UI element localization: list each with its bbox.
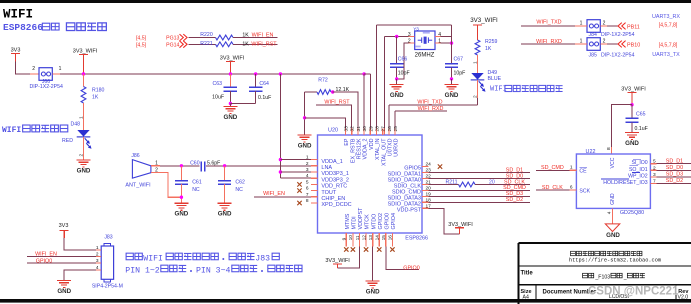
svg-text:SO_IO1: SO_IO1 — [629, 167, 648, 173]
svg-text:PB10: PB10 — [627, 42, 640, 48]
svg-text:VCC: VCC — [610, 157, 616, 168]
svg-text:ESP8266: ESP8266 — [3, 22, 43, 33]
svg-text:SCK: SCK — [579, 188, 590, 194]
svg-text:WIFI_EN: WIFI_EN — [252, 33, 274, 39]
svg-text:R220: R220 — [200, 32, 213, 38]
svg-text:J83: J83 — [255, 254, 270, 263]
svg-text:SD_CMD: SD_CMD — [541, 165, 564, 171]
svg-text:https://fire-stm32.taobao.com: https://fire-stm32.taobao.com — [569, 257, 661, 263]
svg-text:10pF: 10pF — [398, 70, 410, 76]
svg-text:VDDA_1: VDDA_1 — [321, 159, 342, 165]
svg-text:13: 13 — [368, 235, 374, 241]
svg-text:UART3_RX: UART3_RX — [652, 14, 680, 20]
svg-text:TOUT: TOUT — [321, 190, 337, 196]
svg-text:1K: 1K — [242, 33, 249, 39]
svg-text:DIP-1X2-2P54: DIP-1X2-2P54 — [601, 52, 635, 58]
svg-text:SD_D2: SD_D2 — [666, 178, 683, 184]
svg-text:5: 5 — [653, 159, 656, 165]
svg-text:VDD: VDD — [369, 138, 375, 149]
svg-text:10: 10 — [348, 235, 354, 241]
svg-text:1: 1 — [306, 155, 309, 161]
svg-text:GND: GND — [224, 114, 238, 121]
svg-text:XPD_DCDC: XPD_DCDC — [321, 202, 351, 208]
svg-text:3V3_WIFI: 3V3_WIFI — [470, 17, 498, 24]
svg-text:9: 9 — [342, 237, 348, 240]
svg-text:WIFI: WIFI — [2, 126, 21, 135]
svg-text:GPIO2: GPIO2 — [378, 213, 384, 229]
svg-text:RED: RED — [62, 138, 73, 144]
svg-text:0.1uF: 0.1uF — [635, 126, 648, 132]
svg-text:WIFI_TXD: WIFI_TXD — [417, 99, 442, 105]
svg-text:SD_D0: SD_D0 — [666, 165, 683, 171]
svg-text:ANT_WIFI: ANT_WIFI — [125, 183, 150, 189]
svg-text:WP_IO2: WP_IO2 — [628, 173, 648, 179]
svg-text:WIFI: WIFI — [3, 8, 33, 22]
svg-text:14: 14 — [375, 235, 381, 241]
svg-text:GND: GND — [625, 140, 639, 147]
svg-text:PIN 3~4: PIN 3~4 — [196, 266, 230, 275]
svg-text:PG13: PG13 — [166, 36, 179, 42]
svg-text:1K: 1K — [242, 41, 249, 47]
svg-text:BLUE: BLUE — [488, 76, 502, 82]
svg-text:R211: R211 — [445, 179, 457, 185]
svg-text:C67: C67 — [454, 57, 464, 63]
svg-text:SD_D3: SD_D3 — [666, 172, 683, 178]
svg-text:2: 2 — [96, 252, 99, 258]
svg-text:WIFI_RXD: WIFI_RXD — [418, 106, 444, 112]
svg-text:1: 1 — [473, 61, 479, 64]
svg-text:V2.0: V2.0 — [678, 295, 689, 301]
svg-text:Y3: Y3 — [413, 26, 419, 31]
svg-text:VDDPST: VDDPST — [358, 207, 364, 230]
svg-text:4: 4 — [96, 265, 99, 271]
svg-text:MTCK: MTCK — [365, 214, 371, 230]
svg-text:WIFI: WIFI — [143, 254, 163, 263]
svg-text:[4,5,7,8]: [4,5,7,8] — [659, 43, 678, 49]
svg-text:GPIO0: GPIO0 — [403, 265, 419, 271]
svg-text:CE: CE — [579, 169, 587, 175]
svg-text:D48: D48 — [70, 122, 80, 128]
svg-text:GD25Q80: GD25Q80 — [620, 210, 644, 216]
svg-text:1: 1 — [59, 66, 62, 72]
svg-text:WIFI_TXD: WIFI_TXD — [536, 19, 561, 25]
svg-text:GND: GND — [390, 92, 404, 99]
svg-text:UART3_TX: UART3_TX — [652, 52, 680, 58]
svg-text:1: 1 — [570, 165, 573, 171]
svg-text:8: 8 — [606, 147, 612, 150]
svg-text:8: 8 — [306, 198, 309, 204]
svg-text:2: 2 — [32, 66, 35, 72]
svg-text:C62: C62 — [235, 180, 245, 186]
svg-text:7: 7 — [653, 178, 656, 184]
svg-text:D49: D49 — [488, 70, 498, 76]
svg-text:U0TXD: U0TXD — [388, 138, 394, 156]
svg-text:J84: J84 — [589, 32, 597, 38]
svg-text:NC: NC — [192, 187, 200, 193]
svg-text:R221: R221 — [200, 41, 213, 47]
svg-text:1: 1 — [580, 39, 583, 45]
svg-text:GPIO4: GPIO4 — [391, 213, 397, 229]
svg-text:GPIO0: GPIO0 — [36, 258, 52, 264]
svg-text:26MHZ: 26MHZ — [415, 53, 435, 59]
svg-text:0.1uF: 0.1uF — [258, 95, 271, 101]
svg-text:3V3_WIFI: 3V3_WIFI — [448, 222, 473, 228]
svg-text:2: 2 — [473, 95, 479, 98]
svg-text:C66: C66 — [398, 57, 408, 63]
svg-text:31: 31 — [356, 126, 362, 132]
svg-text:PG14: PG14 — [166, 42, 179, 48]
svg-text:1: 1 — [79, 116, 85, 119]
svg-text:NC: NC — [235, 187, 243, 193]
svg-text:_: _ — [623, 274, 627, 280]
svg-text:GND: GND — [77, 167, 91, 174]
svg-text:3V3_WIFI: 3V3_WIFI — [220, 56, 245, 62]
svg-text:3: 3 — [96, 258, 99, 264]
svg-text:R72: R72 — [318, 78, 328, 84]
svg-text:CSDN @NPC221: CSDN @NPC221 — [588, 286, 679, 298]
svg-text:1K: 1K — [92, 95, 99, 101]
svg-text:R259: R259 — [485, 39, 498, 45]
svg-text:U0RXD: U0RXD — [394, 138, 400, 156]
svg-text:GND: GND — [606, 232, 620, 239]
svg-text:R180: R180 — [92, 88, 105, 94]
svg-text:MTDI: MTDI — [351, 216, 357, 229]
svg-text:32: 32 — [350, 126, 356, 132]
svg-text:30: 30 — [362, 126, 368, 132]
svg-text:CHIP_EN: CHIP_EN — [321, 196, 345, 202]
svg-text:GND: GND — [445, 92, 459, 99]
svg-text:3V3_WIFI: 3V3_WIFI — [621, 87, 646, 93]
svg-text:WIFI: WIFI — [490, 86, 507, 94]
svg-text:A4: A4 — [523, 294, 529, 300]
svg-text:HOLD/RESET_IO3: HOLD/RESET_IO3 — [603, 180, 648, 186]
svg-text:24: 24 — [426, 162, 432, 168]
svg-text:3V3_WIFI: 3V3_WIFI — [325, 258, 350, 264]
svg-text:J83: J83 — [104, 235, 112, 241]
svg-text:GND: GND — [175, 211, 189, 218]
svg-text:27: 27 — [381, 126, 387, 132]
svg-text:VDD3P3_1: VDD3P3_1 — [321, 171, 349, 177]
svg-text:J85: J85 — [589, 52, 597, 58]
svg-text:SIP4-2P54-M: SIP4-2P54-M — [92, 284, 123, 290]
svg-text:1: 1 — [96, 245, 99, 251]
svg-text:C63: C63 — [212, 81, 222, 87]
svg-text:PB11: PB11 — [627, 24, 640, 30]
svg-text:1: 1 — [580, 21, 583, 27]
svg-text:VDDA_2: VDDA_2 — [363, 139, 369, 160]
svg-text:3V3: 3V3 — [59, 223, 69, 229]
svg-text:[4,5]: [4,5] — [136, 42, 147, 48]
svg-text:EX_RSTB: EX_RSTB — [350, 138, 356, 163]
svg-text:26: 26 — [387, 126, 393, 132]
svg-text:3: 3 — [653, 172, 656, 178]
svg-text:29: 29 — [368, 126, 374, 132]
svg-text:15: 15 — [381, 235, 387, 241]
svg-text:C64: C64 — [259, 81, 269, 87]
svg-text:PIN 1~2: PIN 1~2 — [125, 266, 159, 275]
svg-text:GPIO0: GPIO0 — [384, 213, 390, 229]
svg-text:GND: GND — [366, 288, 380, 295]
svg-text:GND: GND — [610, 193, 616, 205]
svg-text:VDD_RTC: VDD_RTC — [321, 184, 347, 190]
svg-text:C61: C61 — [192, 180, 202, 186]
svg-text:10pF: 10pF — [454, 70, 466, 76]
svg-text:U22: U22 — [586, 149, 596, 155]
svg-text:33: 33 — [344, 126, 350, 132]
svg-text:SD_CLK: SD_CLK — [542, 185, 563, 191]
svg-text:5: 5 — [306, 179, 309, 185]
svg-text:28: 28 — [375, 126, 381, 132]
svg-text:11: 11 — [355, 235, 361, 240]
svg-text:C60: C60 — [190, 160, 200, 166]
svg-text:GND: GND — [57, 288, 71, 295]
svg-text:WIFI_EN: WIFI_EN — [263, 191, 285, 197]
svg-text:WIFI_RST: WIFI_RST — [251, 41, 277, 47]
svg-text:RES12K: RES12K — [357, 138, 363, 159]
svg-text:20: 20 — [489, 179, 495, 185]
svg-text:WIFI_EN: WIFI_EN — [35, 252, 57, 258]
svg-text:3V3: 3V3 — [11, 48, 21, 54]
svg-text:12.1K: 12.1K — [336, 87, 350, 93]
svg-text:6: 6 — [306, 186, 309, 192]
svg-text:2: 2 — [306, 161, 309, 167]
svg-text:12: 12 — [361, 235, 367, 241]
svg-text:10uF: 10uF — [212, 95, 224, 101]
svg-text:GND: GND — [298, 142, 312, 149]
svg-text:XTAL_OUT: XTAL_OUT — [381, 138, 387, 166]
svg-text:25: 25 — [393, 126, 399, 132]
svg-text:_F103: _F103 — [594, 274, 610, 280]
svg-text:GND: GND — [218, 211, 232, 218]
svg-text:EP: EP — [344, 138, 350, 146]
svg-text:C65: C65 — [636, 111, 646, 117]
svg-text:J86: J86 — [131, 153, 139, 159]
svg-text:VDD-PST: VDD-PST — [397, 207, 422, 213]
svg-text:MTDO: MTDO — [371, 214, 377, 230]
svg-text:U20: U20 — [328, 128, 338, 134]
svg-text:LNA: LNA — [321, 165, 332, 171]
svg-text:4: 4 — [306, 173, 309, 179]
svg-text:XTAL_IN: XTAL_IN — [375, 138, 381, 160]
svg-text:2: 2 — [653, 165, 656, 171]
svg-text:VDD3P3_2: VDD3P3_2 — [321, 177, 349, 183]
svg-text:SI_IO0: SI_IO0 — [632, 160, 648, 166]
svg-text:3V3_WIFI: 3V3_WIFI — [73, 49, 98, 55]
svg-text:[4,5]: [4,5] — [136, 36, 147, 42]
svg-text:SD_D1: SD_D1 — [666, 159, 683, 165]
svg-text:[4,5,7,8]: [4,5,7,8] — [659, 23, 678, 29]
svg-text:3: 3 — [306, 167, 309, 173]
svg-text:SD_D2: SD_D2 — [506, 197, 523, 203]
svg-text:ESP8266: ESP8266 — [405, 236, 428, 242]
svg-text:6: 6 — [570, 184, 573, 190]
svg-text:WIFI_RXD: WIFI_RXD — [536, 39, 562, 45]
svg-text:1K: 1K — [485, 46, 492, 52]
svg-text:4: 4 — [607, 211, 613, 214]
svg-text:Title: Title — [521, 271, 534, 277]
svg-text:16: 16 — [388, 235, 394, 241]
svg-text:2: 2 — [79, 154, 85, 157]
svg-text:DIP-1X2-2P54: DIP-1X2-2P54 — [29, 84, 63, 90]
svg-text:7: 7 — [306, 192, 309, 198]
svg-text:DIP-1X2-2P54: DIP-1X2-2P54 — [601, 32, 635, 38]
svg-text:MTMS: MTMS — [345, 213, 351, 229]
